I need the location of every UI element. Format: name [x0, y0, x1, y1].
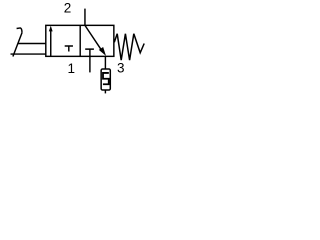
- spring return: [114, 34, 144, 60]
- lever lower link: [11, 53, 46, 55]
- lever upper link: [18, 43, 46, 45]
- silencer absorbent S: [103, 73, 109, 84]
- arrow flow path 1 to 2 left box: [49, 26, 53, 57]
- svg-text:1: 1: [68, 61, 76, 76]
- blocked port T right box: [85, 49, 94, 56]
- port 2 riser: [84, 9, 86, 26]
- box divider: [79, 25, 81, 56]
- flow path 2 to 3 diagonal right box: [85, 25, 106, 56]
- blocked port T left box: [65, 46, 73, 52]
- port 3 stub: [104, 56, 106, 69]
- silencer body: [101, 69, 110, 90]
- lever diagonal: [13, 33, 22, 57]
- lever handle hook: [17, 28, 22, 33]
- port 1 stub: [89, 56, 91, 72]
- svg-text:2: 2: [64, 0, 72, 15]
- valve body frame: [46, 25, 114, 56]
- svg-text:3: 3: [117, 60, 125, 75]
- silencer bottom stub: [104, 90, 106, 93]
